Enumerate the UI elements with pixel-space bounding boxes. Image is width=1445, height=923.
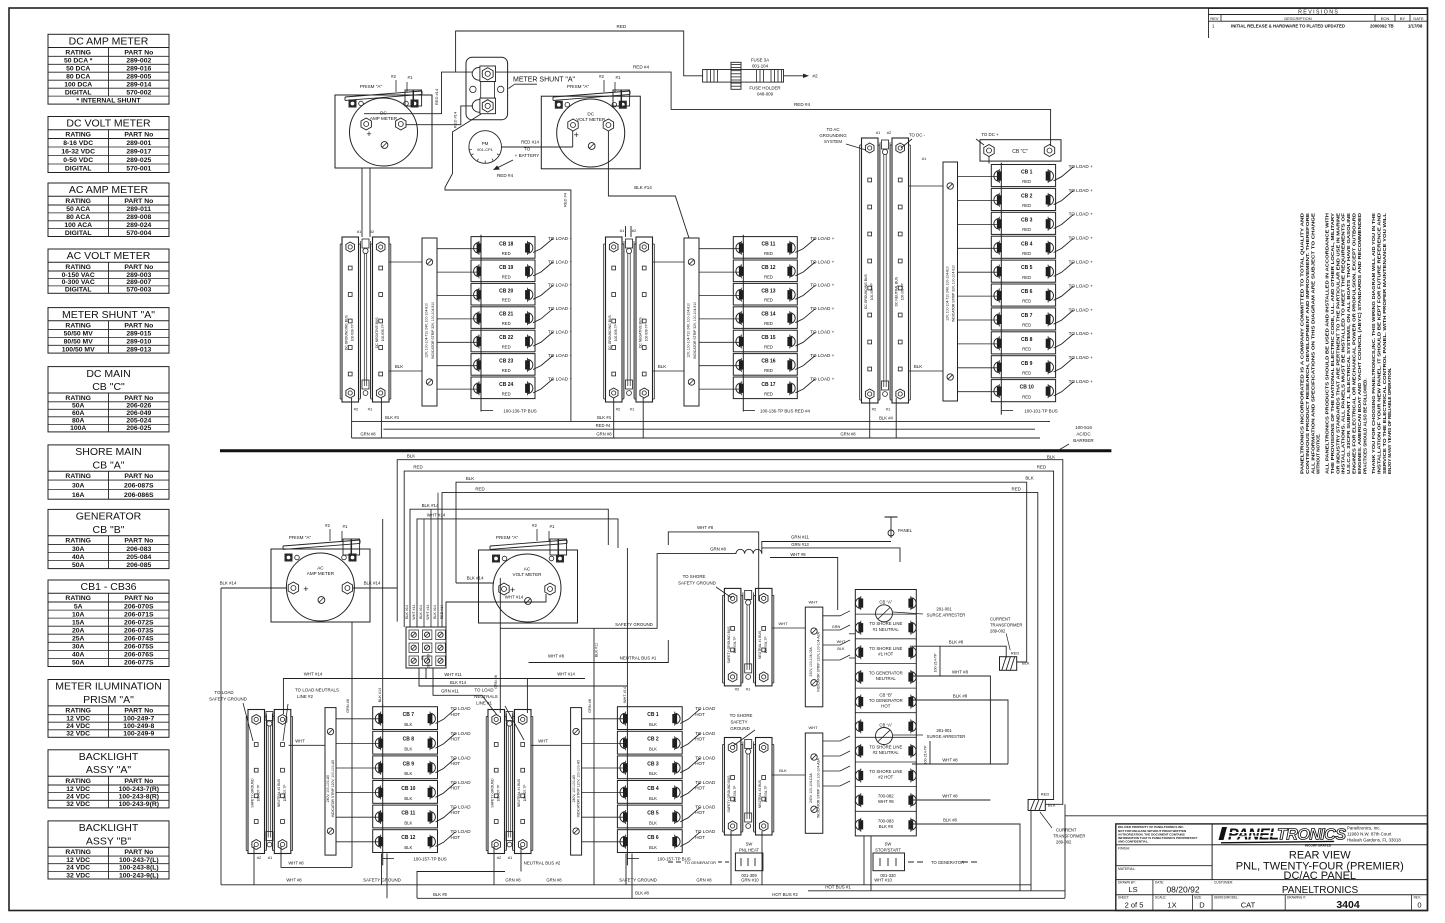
svg-text:CB 2: CB 2	[1021, 194, 1033, 200]
svg-text:BACKLIGHT: BACKLIGHT	[79, 822, 139, 834]
svg-text:NEUTRAL #2 BUS: NEUTRAL #2 BUS	[758, 779, 762, 808]
wire (load pigtail)	[795, 332, 815, 346]
bus wire (stack internal)	[480, 235, 482, 412]
wire vertical right edge bottom	[1064, 804, 1066, 898]
svg-text:PRISM "A": PRISM "A"	[360, 84, 383, 89]
svg-text:GRN #13: GRN #13	[791, 542, 809, 547]
wire (load pigtail)	[795, 379, 815, 393]
bus label 100-157-TP stack B1	[383, 858, 394, 860]
breaker CB 4	[991, 236, 1055, 258]
svg-text:BLK #8: BLK #8	[433, 892, 447, 897]
svg-text:#1: #1	[343, 524, 348, 529]
svg-text:Paneltronics, Inc.: Paneltronics, Inc.	[1347, 826, 1381, 831]
svg-text:INSTALLATIONS. ALL PANELS MUST: INSTALLATIONS. ALL PANELS MUST BE INSTAL…	[1341, 213, 1346, 474]
svg-text:TO SHORE: TO SHORE	[730, 713, 753, 718]
svg-text:GRN #8: GRN #8	[840, 432, 856, 437]
breaker CB 3	[617, 756, 682, 779]
svg-text:15A: 15A	[72, 619, 85, 626]
wire RED loop	[404, 471, 1053, 799]
svg-text:BLK: BLK	[649, 722, 657, 727]
breaker CB 6	[617, 830, 682, 853]
svg-text:HOT: HOT	[695, 786, 705, 791]
breaker shore row TO SHORE LINE	[855, 761, 916, 763]
wire WHT #8 B1	[281, 846, 352, 867]
svg-text:206-073S: 206-073S	[124, 628, 154, 635]
svg-text:RED: RED	[1037, 465, 1046, 470]
svg-text:289-002: 289-002	[990, 629, 1006, 634]
svg-text:BLK #4: BLK #4	[597, 415, 611, 420]
svg-text:TO LOAD +: TO LOAD +	[810, 330, 834, 335]
wire BLK #14 M3 left	[221, 587, 287, 589]
current transformer CT2 289-002	[1028, 800, 1045, 811]
indicator strip ISB4	[805, 733, 823, 833]
svg-text:100-516: 100-516	[1075, 425, 1092, 430]
wire bus A RED#4/BLK#4	[352, 420, 1050, 422]
bus strip SAFETY GROUND	[248, 710, 265, 854]
svg-text:TO LOAD: TO LOAD	[695, 755, 716, 760]
svg-text:TO LOAD +: TO LOAD +	[810, 353, 834, 358]
svg-text:206-071S: 206-071S	[124, 611, 154, 618]
svg-text:TRANSFORMER: TRANSFORMER	[1053, 834, 1085, 839]
svg-text:+: +	[366, 129, 371, 139]
svg-text:100-909-TP: 100-909-TP	[870, 283, 874, 300]
indicator strip IS2	[684, 238, 699, 406]
wire (load pigtail)	[1054, 334, 1074, 348]
svg-text:100-907-TP: 100-907-TP	[523, 785, 527, 802]
svg-text:24 VDC: 24 VDC	[66, 794, 90, 801]
svg-text:BLK: BLK	[404, 771, 412, 776]
svg-text:#1: #1	[508, 855, 513, 860]
svg-text:BLK: BLK	[404, 747, 412, 752]
svg-text:40A: 40A	[72, 652, 85, 659]
wire (load pigtail)	[795, 309, 815, 323]
bus strip DC NEGATIVE BUS	[636, 237, 653, 402]
meter M3 AC AMP METER	[271, 549, 370, 622]
svg-text:CB 21: CB 21	[499, 312, 513, 318]
breaker shore row CB “A”	[855, 712, 916, 714]
svg-text:SIZE:: SIZE:	[1194, 896, 1202, 900]
svg-text:206-083: 206-083	[126, 546, 151, 553]
svg-text:SAFETY GROUND: SAFETY GROUND	[615, 622, 653, 627]
svg-text:206-070S: 206-070S	[124, 603, 154, 610]
svg-text:RED: RED	[502, 345, 511, 350]
svg-text:11960 N.W. 87th Court: 11960 N.W. 87th Court	[1347, 832, 1392, 837]
bus strip DC GROUNDING BUS	[606, 237, 623, 402]
svg-text:CB 20: CB 20	[499, 288, 513, 294]
bus label 100-136-TP stack1	[481, 410, 493, 412]
svg-text:RED: RED	[502, 321, 511, 326]
svg-text:80A: 80A	[72, 418, 85, 425]
svg-text:Hialeah Gardens, FL 33018: Hialeah Gardens, FL 33018	[1347, 838, 1401, 843]
breaker CB 2	[617, 731, 682, 754]
svg-text:BLK #11: BLK #11	[595, 643, 599, 657]
svg-text:BLK: BLK	[649, 845, 657, 850]
svg-text:TO LOAD: TO LOAD	[451, 805, 472, 810]
svg-text:SAFETY GROUND: SAFETY GROUND	[678, 581, 716, 586]
svg-text:LS: LS	[1128, 885, 1137, 894]
svg-text:BLK: BLK	[649, 796, 657, 801]
svg-text:DC: DC	[587, 112, 594, 117]
svg-text:#1 NEUTRAL: #1 NEUTRAL	[873, 627, 900, 632]
wire (load pigtail)	[436, 709, 456, 724]
svg-text:#2: #2	[354, 407, 359, 412]
svg-text:20A: 20A	[72, 628, 85, 635]
svg-text:DC NEUTRAL BUS: DC NEUTRAL BUS	[895, 276, 899, 306]
wire (load pigtail)	[680, 709, 700, 724]
svg-text:100-934-TP: 100-934-TP	[733, 786, 737, 803]
table CB1-CB36	[48, 580, 169, 667]
svg-text:32 VDC: 32 VDC	[66, 731, 90, 738]
svg-text:RATING: RATING	[65, 849, 91, 856]
svg-text:HOT BUS #1: HOT BUS #1	[825, 884, 851, 889]
table DC MAIN CB C	[48, 367, 169, 432]
svg-text:PART No: PART No	[124, 595, 153, 602]
wire (load pigtail)	[680, 807, 700, 822]
wire (load pigtail)	[436, 758, 456, 773]
svg-text:AMP METER: AMP METER	[307, 571, 335, 576]
bus strip SAFETY GROUND	[488, 710, 505, 854]
svg-text:BLK #14: BLK #14	[433, 605, 437, 619]
breaker CB 11	[373, 805, 438, 828]
svg-text:CB 7: CB 7	[1021, 313, 1033, 319]
breaker CB C main	[980, 140, 1061, 161]
breaker shore row 700-083	[855, 810, 916, 812]
svg-text:289-008: 289-008	[126, 214, 151, 221]
bus strip DC GROUNDING BUS	[342, 237, 359, 402]
wire WHT #14 B2 line	[426, 678, 585, 680]
svg-text:100-243-7(L): 100-243-7(L)	[119, 857, 159, 864]
svg-text:80/50 MV: 80/50 MV	[64, 339, 94, 346]
title block bottom row	[1191, 895, 1193, 911]
svg-text:#2: #2	[325, 523, 330, 528]
svg-text:WHT #11: WHT #11	[444, 672, 462, 677]
svg-text:ENJOY MANY YEARS OF RELIABLE O: ENJOY MANY YEARS OF RELIABLE OPERATION.	[1387, 368, 1392, 474]
wire (load pigtail)	[680, 832, 700, 847]
svg-text:TO LOAD +: TO LOAD +	[810, 259, 834, 264]
svg-text:CB 19: CB 19	[499, 265, 513, 271]
meter M2 DC VOLT METER	[541, 96, 640, 169]
svg-text:TO LOAD: TO LOAD	[451, 780, 472, 785]
svg-text:METER ILUMINATION: METER ILUMINATION	[55, 681, 162, 693]
svg-text:BLK: BLK	[658, 364, 666, 369]
bus strip DC NEGATIVE BUS	[373, 237, 390, 402]
svg-text:GROUNDING: GROUNDING	[819, 133, 847, 138]
svg-text:WHT #14: WHT #14	[427, 513, 446, 518]
svg-text:DC NEGATIVE BUS: DC NEGATIVE BUS	[639, 317, 643, 348]
svg-text:240V, 100-100-A5: 240V, 100-100-A5	[572, 775, 576, 802]
svg-text:16-32 VDC: 16-32 VDC	[61, 149, 95, 156]
svg-text:SHEET:: SHEET:	[1118, 896, 1129, 900]
svg-text:WHT: WHT	[808, 725, 818, 730]
svg-text:CB 8: CB 8	[1021, 337, 1033, 343]
svg-text:50 DCA: 50 DCA	[66, 66, 90, 73]
breaker CB 11	[733, 237, 797, 259]
svg-text:PRISM "A": PRISM "A"	[567, 84, 590, 89]
svg-text:205-084: 205-084	[126, 554, 151, 561]
wires IS2 to CB11-17 rows	[699, 248, 741, 250]
svg-text:NEUTRAL #2 BUS: NEUTRAL #2 BUS	[277, 778, 281, 807]
wire SW2 dashed to generator	[908, 861, 914, 863]
svg-text:#2: #2	[616, 407, 621, 412]
wire M3 right hex to BLK loop	[353, 587, 397, 589]
svg-text:SERIES/MODEL:: SERIES/MODEL:	[1214, 896, 1239, 900]
svg-text:TO LOAD +: TO LOAD +	[548, 353, 572, 358]
breaker CB 2	[991, 188, 1055, 210]
svg-text:TO LOAD +: TO LOAD +	[810, 306, 834, 311]
svg-text:289-002: 289-002	[126, 58, 151, 65]
svg-text:WHT #8: WHT #8	[952, 670, 969, 675]
svg-text:570-004: 570-004	[126, 230, 151, 237]
wire (load pigtail)	[680, 758, 700, 773]
wire RED #4 shunt down	[445, 114, 571, 421]
svg-text:AMP METER: AMP METER	[370, 116, 398, 121]
svg-text:RED: RED	[1022, 347, 1031, 352]
svg-text:INDICATOR STRIP 32V, 100-104-: INDICATOR STRIP 32V, 100-104-910	[693, 302, 697, 359]
svg-text:#2: #2	[370, 229, 375, 234]
wire (load pigtail)	[795, 285, 815, 299]
svg-text:RED #4: RED #4	[633, 65, 650, 70]
svg-text:001-104: 001-104	[752, 64, 769, 69]
svg-text:INDICATOR STRIP 120V, 100-104: INDICATOR STRIP 120V, 100-104-A2A	[816, 631, 820, 691]
svg-text:BLK #14: BLK #14	[422, 503, 439, 508]
svg-text:0-50 VDC: 0-50 VDC	[63, 157, 93, 164]
wire (load pigtail)	[1054, 358, 1074, 372]
indicator strip IS3	[943, 162, 958, 401]
svg-text:SAFETY GROUND BUS: SAFETY GROUND BUS	[727, 775, 731, 813]
svg-text:289-003: 289-003	[126, 272, 151, 279]
svg-text:100-101-TP BUS: 100-101-TP BUS	[1024, 409, 1057, 414]
svg-text:HOT: HOT	[695, 761, 705, 766]
svg-text:CB 3: CB 3	[647, 761, 659, 767]
svg-text:CB "C": CB "C"	[1012, 149, 1028, 155]
svg-text:#1: #1	[876, 130, 881, 135]
svg-text:CB 12: CB 12	[401, 835, 415, 841]
svg-text:BLK #8: BLK #8	[953, 694, 968, 699]
wires ISB4 to shore stack	[823, 736, 850, 741]
bracket meter M4	[490, 543, 567, 549]
svg-text:CUSTOMER:: CUSTOMER:	[1214, 881, 1233, 885]
svg-text:CB 24: CB 24	[499, 382, 513, 388]
svg-text:TO LOAD: TO LOAD	[695, 731, 716, 736]
svg-text:TO SHORE LINE: TO SHORE LINE	[869, 646, 902, 651]
svg-text:AND CONFIDENTIAL.: AND CONFIDENTIAL.	[1118, 840, 1149, 844]
svg-text:HOT: HOT	[695, 736, 705, 741]
svg-text:VOLT METER: VOLT METER	[576, 117, 606, 122]
svg-text:AC/DC: AC/DC	[1076, 432, 1091, 437]
svg-text:PART No: PART No	[124, 538, 153, 545]
svg-text:U.S.C.G. 33CFR SUBPART 1, ELEC: U.S.C.G. 33CFR SUBPART 1, ELECTRICAL SYS…	[1346, 213, 1351, 474]
svg-text:RATING: RATING	[65, 132, 91, 139]
svg-text:50 ACA: 50 ACA	[66, 206, 90, 213]
svg-text:GRN #8: GRN #8	[596, 432, 612, 437]
breaker CB 12	[373, 830, 438, 853]
wire (load pigtail)	[533, 332, 553, 346]
svg-text:PRISM "A": PRISM "A"	[289, 535, 312, 540]
svg-text:RED: RED	[1022, 275, 1031, 280]
svg-text:SAFETY GROUND: SAFETY GROUND	[209, 697, 247, 702]
pm meter 001-CP1	[469, 131, 502, 164]
wire BLK loop outer	[397, 460, 1063, 805]
svg-text:RED: RED	[1022, 203, 1031, 208]
svg-text:206-026: 206-026	[126, 403, 151, 410]
svg-text:DIGITAL: DIGITAL	[65, 89, 92, 96]
bus bar channel	[506, 714, 508, 850]
wire GRN #8 drop right	[593, 628, 595, 885]
svg-text:RED: RED	[1022, 251, 1031, 256]
svg-text:206-075S: 206-075S	[124, 644, 154, 651]
svg-text:100-243-8(R): 100-243-8(R)	[119, 794, 159, 801]
wire BLK #14 below block	[419, 668, 627, 686]
svg-text:BLK: BLK	[649, 771, 657, 776]
svg-text:PANEL: PANEL	[1228, 827, 1279, 844]
svg-text:1/17/08: 1/17/08	[1408, 24, 1423, 29]
svg-text:THE PROVISIONS OF THE NATIONAL: THE PROVISIONS OF THE NATIONAL ELECTRIC …	[1330, 213, 1335, 474]
svg-text:24 VDC: 24 VDC	[66, 723, 90, 730]
svg-text:AC: AC	[524, 567, 531, 572]
svg-text:WHT #10: WHT #10	[874, 878, 892, 883]
svg-text:OR INDUSTRY STANDARDS THAT ARE: OR INDUSTRY STANDARDS THAT ARE PERTINENT…	[1335, 213, 1340, 474]
svg-text:0-300 VAC: 0-300 VAC	[62, 279, 95, 286]
breaker CB 10	[991, 380, 1055, 402]
svg-text:PART No: PART No	[124, 323, 153, 330]
svg-text:CB1 - CB36: CB1 - CB36	[80, 581, 136, 593]
wire neutral bus 2	[417, 872, 505, 899]
svg-text:BLK: BLK	[649, 747, 657, 752]
svg-text:HOT: HOT	[451, 736, 461, 741]
svg-text:CB 1: CB 1	[1021, 170, 1033, 176]
svg-text:50 DCA *: 50 DCA *	[64, 58, 93, 65]
svg-text:#2: #2	[872, 407, 877, 412]
svg-text:SAFETY GROUND: SAFETY GROUND	[619, 878, 657, 883]
wire RED top	[456, 31, 703, 76]
svg-text:BLK: BLK	[466, 476, 474, 481]
svg-text:3404: 3404	[1336, 899, 1360, 911]
indicator strip ISB2	[571, 708, 582, 856]
svg-text:289-013: 289-013	[126, 346, 151, 353]
breaker shore row CB “B”	[855, 687, 916, 689]
wire (load pigtail)	[1054, 286, 1074, 300]
breaker CB 21	[471, 307, 535, 329]
svg-text:PRISM "A": PRISM "A"	[83, 694, 134, 706]
wire (load pigtail)	[533, 309, 553, 323]
svg-text:AC VOLT METER: AC VOLT METER	[67, 250, 151, 262]
svg-text:100-907-TP: 100-907-TP	[257, 785, 261, 802]
svg-text:#1: #1	[886, 407, 891, 412]
meter shunt A	[466, 57, 508, 120]
wire (load pigtail)	[795, 262, 815, 276]
svg-text:PANELTRONICS INCORPORATED IS A: PANELTRONICS INCORPORATED IS A COMPANY C…	[1300, 212, 1305, 474]
svg-text:700-082: 700-082	[878, 794, 894, 799]
svg-text:GENERATOR: GENERATOR	[76, 511, 142, 523]
svg-text:RED: RED	[502, 368, 511, 373]
svg-text:#2: #2	[257, 855, 262, 860]
svg-text:32 VDC: 32 VDC	[66, 801, 90, 808]
svg-text:100-214-TP: 100-214-TP	[924, 745, 928, 765]
svg-text:WHT #8: WHT #8	[288, 861, 304, 866]
svg-text:TO DC -: TO DC -	[909, 133, 926, 138]
svg-text:BARRIER: BARRIER	[1073, 438, 1094, 443]
svg-text:SAFETY GROUND: SAFETY GROUND	[251, 778, 255, 808]
svg-text:INSTALLATION OF YOUR NEW PANEL: INSTALLATION OF YOUR NEW PANEL. IT SHOUL…	[1376, 212, 1381, 474]
svg-text:RATING: RATING	[65, 538, 91, 545]
svg-text:SW: SW	[746, 842, 753, 847]
svg-text:CB 14: CB 14	[761, 312, 775, 318]
svg-text:BLK #4: BLK #4	[385, 415, 399, 420]
svg-text:TO LOAD +: TO LOAD +	[548, 259, 572, 264]
svg-text:TO GENERATOR: TO GENERATOR	[931, 860, 964, 865]
wire (load pigtail)	[533, 285, 553, 299]
svg-text:001-169: 001-169	[427, 654, 431, 668]
wire BLK #14 horizontal	[410, 509, 608, 627]
svg-text:HOT: HOT	[451, 835, 461, 840]
svg-text:BLK #8: BLK #8	[635, 891, 649, 896]
svg-text:100-934-TP: 100-934-TP	[764, 636, 768, 653]
title block drawn/date row	[1152, 880, 1154, 911]
breaker CB 16	[733, 354, 797, 376]
svg-text:#1: #1	[630, 407, 635, 412]
svg-text:TO SHORE LINE: TO SHORE LINE	[869, 769, 902, 774]
svg-text:WHT #8: WHT #8	[942, 758, 958, 763]
svg-text:048-009: 048-009	[757, 92, 774, 97]
svg-text:289-025: 289-025	[126, 157, 151, 164]
wire (load pigtail)	[533, 262, 553, 276]
svg-text:TO LOAD: TO LOAD	[451, 731, 472, 736]
breaker CB 23	[471, 354, 535, 376]
svg-text:* INTERNAL SHUNT: * INTERNAL SHUNT	[76, 98, 141, 105]
svg-text:CB 6: CB 6	[647, 835, 659, 841]
svg-text:+: +	[574, 130, 579, 140]
svg-text:PART No: PART No	[124, 849, 153, 856]
wire BLK #14 M2 to bus pair 2	[608, 131, 689, 238]
breaker CB 9	[991, 356, 1055, 378]
svg-text:RATING: RATING	[65, 595, 91, 602]
svg-text:570-003: 570-003	[126, 287, 151, 294]
bus bar channel	[879, 142, 881, 399]
svg-text:TO GENERATOR: TO GENERATOR	[869, 670, 903, 675]
bus bar channel	[266, 714, 268, 850]
svg-text:50/50 MV: 50/50 MV	[64, 331, 94, 338]
svg-text:NEUTRAL #1 BUS: NEUTRAL #1 BUS	[517, 778, 521, 807]
svg-text:PART No: PART No	[124, 778, 153, 785]
breaker CB 10	[373, 781, 438, 804]
svg-text:LINE #2: LINE #2	[297, 694, 313, 699]
svg-text:CB 2: CB 2	[647, 737, 659, 743]
svg-text:INDICATOR STRIP 120V, 100-100: INDICATOR STRIP 120V, 100-100-A5	[331, 760, 335, 817]
wire CB C to stack bus	[988, 157, 990, 164]
svg-text:RATING: RATING	[65, 473, 91, 480]
svg-text:ENGINES FOR ELECTRICAL OR MECH: ENGINES FOR ELECTRICAL OR MECHANICAL POW…	[1352, 212, 1357, 474]
svg-text:RATING: RATING	[65, 708, 91, 715]
svg-text:3V: 3V	[421, 655, 425, 660]
bus bar channel	[742, 742, 744, 832]
wires IS3 to CB1-10 rows	[958, 176, 1000, 178]
svg-text:NEUTRAL #1 BUS: NEUTRAL #1 BUS	[758, 630, 762, 659]
wire GRN #8 vertical to B2	[499, 578, 501, 713]
svg-text:CB 13: CB 13	[761, 288, 775, 294]
svg-text:CB 10: CB 10	[1020, 385, 1034, 391]
table BACKLIGHT ASSY B	[48, 821, 169, 879]
svg-text:INITIAL RELEASE & HARDWARE TO: INITIAL RELEASE & HARDWARE TO PLATED UPD…	[1231, 24, 1345, 29]
svg-text:289-024: 289-024	[126, 222, 151, 229]
svg-text:ALL PANELTRONICS PRODUCTS SHOU: ALL PANELTRONICS PRODUCTS SHOULD BE USED…	[1325, 213, 1330, 474]
svg-text:BLK #8: BLK #8	[949, 640, 964, 645]
svg-text:CB "C": CB "C"	[92, 381, 125, 393]
svg-text:RED: RED	[413, 465, 422, 470]
svg-text:BY: BY	[1400, 16, 1406, 21]
svg-text:50A: 50A	[72, 403, 85, 410]
bracket meter M2	[553, 94, 630, 100]
svg-text:PART No: PART No	[124, 132, 153, 139]
